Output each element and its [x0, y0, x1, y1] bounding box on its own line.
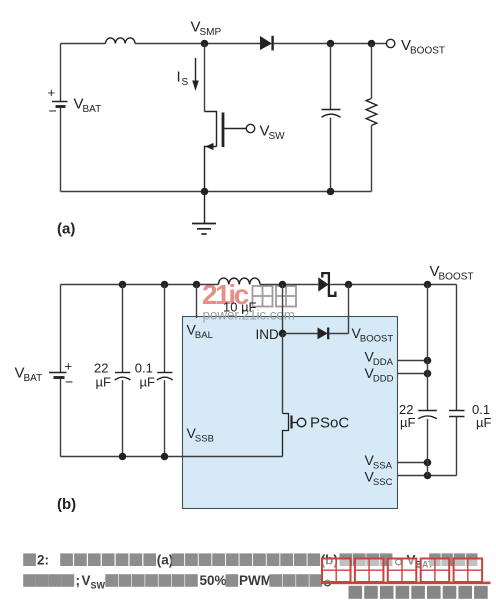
- diode D3 (inside PSoC box): [318, 328, 328, 340]
- wire: VDDA pin to VBOOST rail: [398, 360, 428, 362]
- watermark RF antenna expert glyph blocks: [349, 586, 488, 599]
- wire: VBOOST rail upper segment: [427, 285, 429, 411]
- wire: circuit (a) top rail, diode to VBOOST terminal: [274, 43, 386, 45]
- wire: internal diode to VBOOST pin riser: [329, 333, 348, 335]
- battery V_BAT (circuit a): [52, 101, 68, 103]
- svg-text:PSoC: PSoC: [310, 415, 349, 432]
- capacitor C5 0.1uF (circuit b right): [449, 410, 465, 412]
- svg-text:BAL: BAL: [195, 330, 213, 341]
- svg-text:−: −: [49, 103, 57, 119]
- capacitor C3 0.1uF (circuit b left): [164, 285, 166, 373]
- caption line 1: figure 2 description (CJK glyph blocks): [23, 552, 477, 569]
- svg-text:µF: µF: [476, 415, 491, 430]
- capacitor C2 22uF (circuit b left): [122, 285, 124, 373]
- svg-text:+: +: [65, 359, 73, 374]
- svg-text:+: +: [48, 85, 56, 100]
- svg-text:2:: 2:: [37, 552, 49, 567]
- diode D2 schottky (circuit b top): [318, 277, 328, 291]
- wire: left branch, top rail to battery: [60, 44, 62, 102]
- inductor L2 (circuit b) 10uF: [218, 278, 260, 284]
- wire: IND pin to internal diode: [283, 333, 318, 335]
- watermark yiditop red outline glyph blocks: [322, 559, 482, 583]
- node IND pin dot: [279, 330, 287, 338]
- svg-text:(a): (a): [157, 552, 174, 567]
- node: top rail / resistor tap dot: [368, 40, 376, 48]
- wire: VSMP node down to MOSFET drain: [204, 44, 206, 112]
- wire: circuit (b) bottom rail (VSSB): [61, 456, 283, 458]
- svg-text:BOOST: BOOST: [439, 272, 474, 283]
- node: bottom rail / capacitor dot: [327, 188, 335, 196]
- node: top rail / capacitor tap dot: [327, 40, 335, 48]
- svg-text:0.1: 0.1: [135, 361, 153, 376]
- svg-text:µF: µF: [400, 415, 415, 430]
- caption line 2: battery voltage / PWM waveform (CJK glyph blocks): [23, 573, 330, 590]
- node: top rail dot at 0.1uF branch: [161, 281, 169, 289]
- node: top rail dot at VBAL stub: [193, 281, 201, 289]
- svg-text:S: S: [182, 77, 189, 88]
- wire: VSSC pin across to 0.1uF rail: [398, 475, 457, 477]
- svg-text:BAT: BAT: [83, 104, 102, 115]
- watermark red underline bar: [321, 582, 491, 585]
- svg-text:BOOST: BOOST: [410, 46, 445, 57]
- svg-text:SSA: SSA: [373, 461, 393, 472]
- capacitor C1 (circuit a): [330, 44, 332, 110]
- diode D1 (circuit a): [260, 36, 272, 50]
- svg-text:V: V: [82, 573, 91, 588]
- ground (circuit a): [204, 192, 206, 224]
- svg-text:SMP: SMP: [200, 27, 222, 38]
- svg-text:SSC: SSC: [373, 477, 393, 488]
- svg-text:µF: µF: [140, 374, 155, 389]
- svg-text:SW: SW: [269, 131, 286, 142]
- svg-text:(a): (a): [57, 221, 75, 238]
- svg-text:DDD: DDD: [373, 374, 394, 385]
- svg-text:BAT: BAT: [24, 373, 43, 384]
- svg-text:PWM: PWM: [239, 573, 272, 588]
- wire: VSSA pin to VBOOST rail: [398, 462, 428, 464]
- node VSSA dot: [424, 459, 432, 467]
- node VSMP junction dot: [201, 40, 209, 48]
- svg-text:I: I: [177, 69, 181, 86]
- wire: circuit (a) top rail left segment: [61, 43, 106, 45]
- resistor R1 (circuit a): [371, 44, 373, 99]
- node VDDA dot: [424, 357, 432, 365]
- svg-text:IND: IND: [256, 327, 280, 342]
- node VSSC dot: [424, 472, 432, 480]
- terminal PSoC gate circle: [297, 418, 306, 427]
- node: bottom rail dot at 22uF branch: [119, 453, 127, 461]
- wire: left branch, battery to bottom rail: [60, 108, 62, 192]
- wire: IND branch from top rail to IND pin: [282, 285, 284, 334]
- node: top rail dot at VBOOST rail: [424, 281, 432, 289]
- wire: 0.1uF rail upper segment: [456, 285, 458, 411]
- node: bottom rail dot at 0.1uF branch: [161, 453, 169, 461]
- transistor Q2 (inside PSoC box): [282, 334, 284, 414]
- wire: circuit (b) top rail, schottky to right corner: [330, 284, 456, 286]
- node: bottom rail / ground dot: [201, 188, 209, 196]
- PSoC block U1 (blue box): [183, 317, 398, 509]
- wire: circuit (b) top rail left segment: [61, 284, 219, 286]
- wire: VBAL stub from top rail into box: [196, 285, 198, 319]
- svg-text:DDA: DDA: [373, 357, 394, 368]
- svg-text:22: 22: [94, 361, 108, 376]
- wire: circuit (a) bottom rail: [61, 191, 372, 193]
- wire: circuit (b) top rail, inductor to schottky: [260, 284, 318, 286]
- terminal VBOOST (circuit a): [386, 39, 394, 47]
- inductor L1 (circuit a): [106, 38, 136, 44]
- capacitor C4 22uF (circuit b right): [418, 410, 437, 412]
- node: top rail dot at VBOOST pin riser: [345, 281, 353, 289]
- node: top rail dot at IND branch: [279, 281, 287, 289]
- terminal VSW gate circle: [246, 124, 254, 132]
- wire: circuit (a) top rail, inductor to diode: [135, 43, 260, 45]
- watermark dianyuan glyph block 2: [276, 286, 296, 307]
- svg-text:SSB: SSB: [195, 434, 214, 445]
- watermark dianyuan glyph block 1: [253, 286, 273, 307]
- svg-text:−: −: [65, 374, 73, 390]
- wire: VDDD pin to VBOOST rail: [398, 373, 428, 375]
- svg-text:SW: SW: [91, 580, 106, 590]
- battery V_BAT (circuit b): [60, 285, 62, 373]
- node: top rail dot at 22uF branch: [119, 281, 127, 289]
- svg-text:50%: 50%: [200, 573, 227, 588]
- svg-text:10 µF: 10 µF: [223, 300, 257, 315]
- wire: VBOOST pin riser up to top rail: [348, 285, 350, 334]
- svg-text:(b): (b): [57, 496, 76, 513]
- svg-text:;: ;: [76, 573, 81, 588]
- svg-text:BOOST: BOOST: [360, 334, 393, 345]
- svg-text:µF: µF: [96, 374, 111, 389]
- node VDDD dot: [424, 370, 432, 378]
- transistor Q1 NMOS (circuit a): [205, 112, 217, 147]
